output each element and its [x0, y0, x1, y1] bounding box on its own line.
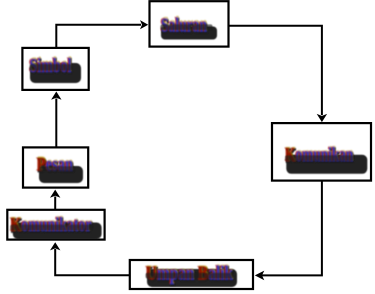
ink smudge over Saluran: [161, 24, 213, 30]
arrowhead into Pesan: [50, 190, 60, 198]
wire Komunikator top to Pesan bottom: [54, 197, 56, 210]
highlight blob Saluran: [161, 27, 217, 40]
ink smudge over Komunikator: [10, 225, 93, 231]
arrowhead into Komunikan: [317, 114, 327, 122]
label Simbol: [28, 54, 72, 79]
arrowhead into Saluran: [140, 20, 148, 29]
svg-text:Komunikan: Komunikan: [285, 144, 353, 166]
label Pesan: [36, 152, 74, 177]
highlight blob Umpan Balik: [147, 269, 237, 287]
wire Pesan top to Simbol bottom: [55, 99, 57, 148]
ink smudge over Komunikan: [285, 155, 354, 161]
ink smudge over Umpan Balik: [146, 273, 234, 279]
label Komunikan: [284, 143, 354, 168]
box Komunikan: [272, 123, 371, 181]
wire Saluran right to Komunikan top: [229, 26, 322, 115]
label Komunikator: [10, 213, 93, 238]
highlight blob Komunikator: [13, 223, 102, 240]
arrowhead into Umpan Balik: [255, 271, 264, 281]
highlight blob Pesan: [39, 166, 83, 183]
box Komunikator: [7, 210, 104, 240]
arrowhead into Komunikator: [50, 242, 60, 250]
box Pesan: [23, 147, 88, 187]
highlight blob Simbol: [30, 63, 81, 83]
svg-text:Pesan: Pesan: [37, 154, 73, 176]
label Saluran: [160, 13, 208, 38]
ink smudge over Simbol: [30, 64, 73, 70]
highlight blob Komunikan: [286, 155, 367, 174]
wire Komunikan bottom to Umpan Balik right: [261, 181, 322, 276]
box Saluran: [150, 1, 229, 46]
label Umpan Balik: [145, 261, 234, 286]
box Simbol: [22, 48, 88, 90]
box Umpan Balik: [130, 260, 253, 289]
wire Umpan Balik left to Komunikator bottom: [55, 249, 130, 275]
wire Simbol top to Saluran left: [56, 25, 141, 48]
ink smudge over Pesan: [40, 166, 76, 171]
arrowhead into Simbol: [51, 92, 61, 100]
